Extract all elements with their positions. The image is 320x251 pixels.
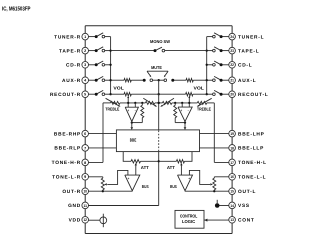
svg-text:VDD: VDD [69, 218, 81, 224]
svg-text:BUS: BUS [170, 184, 177, 189]
svg-text:13: 13 [230, 218, 234, 222]
svg-text:6: 6 [84, 132, 86, 136]
svg-text:18: 18 [230, 146, 234, 150]
svg-text:TONE-H-L: TONE-H-L [238, 160, 267, 166]
svg-text:21: 21 [230, 79, 234, 83]
svg-text:OUT-R: OUT-R [62, 189, 81, 195]
svg-text:5: 5 [84, 93, 86, 97]
svg-text:16: 16 [230, 175, 234, 179]
svg-text:+: + [127, 176, 129, 180]
svg-text:15: 15 [230, 190, 234, 194]
svg-text:20: 20 [230, 93, 234, 97]
svg-text:2: 2 [84, 49, 86, 53]
svg-text:OUT-L: OUT-L [238, 189, 256, 195]
svg-text:BUS: BUS [142, 184, 149, 189]
svg-text:TUNER-L: TUNER-L [238, 34, 264, 40]
svg-text:CONT: CONT [238, 218, 255, 224]
svg-text:CD-R: CD-R [66, 63, 81, 69]
svg-text:MUTE: MUTE [151, 65, 162, 70]
svg-text:AUX-R: AUX-R [62, 78, 81, 84]
svg-text:BBE-LLP: BBE-LLP [238, 146, 264, 152]
svg-text:9: 9 [84, 175, 86, 179]
svg-text:+: + [127, 109, 129, 113]
svg-text:GND: GND [68, 203, 81, 209]
svg-text:23: 23 [230, 49, 234, 53]
svg-text:19: 19 [230, 132, 234, 136]
svg-text:TAPE-R: TAPE-R [59, 48, 81, 54]
svg-text:CONTROL: CONTROL [180, 214, 198, 219]
svg-text:BBE: BBE [130, 137, 137, 142]
svg-text:TONE-H-R: TONE-H-R [52, 160, 81, 166]
svg-text:BBE-RHP: BBE-RHP [54, 131, 81, 137]
svg-text:MONO SW: MONO SW [150, 39, 170, 44]
svg-text:TUNER-R: TUNER-R [54, 34, 81, 40]
svg-text:8: 8 [84, 161, 86, 165]
svg-text:12: 12 [83, 218, 87, 222]
svg-text:22: 22 [230, 63, 234, 67]
svg-text:TREBLE: TREBLE [105, 106, 119, 111]
svg-text:7: 7 [84, 146, 86, 150]
svg-text:BBE-RLP: BBE-RLP [54, 146, 81, 152]
svg-text:TAPE-L: TAPE-L [238, 48, 259, 54]
svg-text:AUX-L: AUX-L [238, 78, 256, 84]
svg-text:ATT: ATT [167, 165, 176, 170]
svg-text:RECOUT-R: RECOUT-R [50, 92, 81, 98]
svg-text:CD-L: CD-L [238, 63, 252, 69]
svg-text:3: 3 [84, 63, 86, 67]
svg-text:LOGIC: LOGIC [182, 219, 195, 224]
svg-text:VOL: VOL [194, 86, 205, 91]
svg-text:17: 17 [230, 161, 234, 165]
svg-text:+: + [180, 109, 182, 113]
svg-text:-: - [188, 109, 189, 113]
svg-text:11: 11 [83, 204, 87, 208]
svg-text:VSS: VSS [238, 203, 250, 209]
svg-text:IC, M61503FP: IC, M61503FP [2, 5, 31, 12]
svg-text:-: - [135, 109, 136, 113]
svg-text:VOL: VOL [113, 86, 124, 91]
svg-text:TONE-L-R: TONE-L-R [52, 175, 81, 181]
svg-text:10: 10 [83, 190, 87, 194]
svg-text:RECOUT-L: RECOUT-L [238, 92, 269, 98]
svg-text:1: 1 [84, 35, 86, 39]
svg-text:TONE-L-L: TONE-L-L [238, 175, 266, 181]
svg-text:+: + [188, 176, 190, 180]
svg-text:BBE-LHP: BBE-LHP [238, 131, 265, 137]
svg-text:ATT: ATT [141, 165, 150, 170]
svg-text:TREBLE: TREBLE [197, 106, 211, 111]
